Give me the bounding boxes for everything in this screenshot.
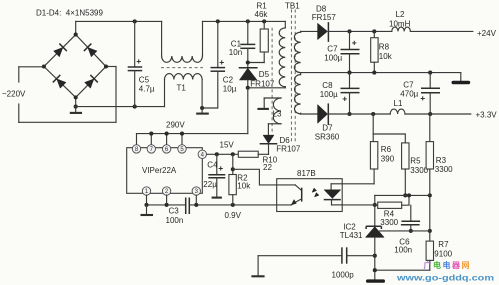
dashed shield line left of TB1 (271, 28, 273, 132)
wire: DC+ top rail (76, 19, 286, 23)
wire: opto LED cathode to TL431 (342, 204, 375, 206)
inductor L2 10mH (389, 10, 411, 31)
svg-text:C8: C8 (322, 81, 333, 90)
IC2 TL431 (340, 223, 384, 280)
resistor R10 22 (238, 151, 277, 172)
svg-text:C7: C7 (327, 44, 338, 53)
capacitor C7 100u (324, 31, 359, 72)
TB1 secondary top winding (294, 31, 317, 72)
optocoupler 817B box (277, 179, 343, 212)
wire: branch to R5 (373, 134, 405, 143)
svg-text:9100: 9100 (434, 250, 452, 259)
diode D2 (bridge top-right) (84, 44, 98, 58)
svg-text:+: + (218, 163, 223, 173)
svg-text:广: 广 (424, 260, 432, 270)
svg-text:D7: D7 (322, 124, 333, 133)
capacitor C1 10n (229, 21, 256, 67)
svg-text:FR107: FR107 (276, 144, 301, 153)
svg-text:C2: C2 (223, 75, 234, 84)
svg-text:10k: 10k (237, 182, 251, 191)
wire: TB1 primary bottom / drain node (248, 88, 285, 134)
svg-text:R8: R8 (379, 43, 390, 52)
ground bar at pin 1 (141, 205, 154, 215)
capacitor C3 100n (166, 198, 190, 226)
svg-text:470µ: 470µ (400, 90, 418, 99)
svg-text:1000p: 1000p (332, 271, 355, 280)
pin 6 (162, 145, 170, 153)
capacitor C5 4.7u (128, 21, 155, 106)
resistor R5 3300 (402, 143, 429, 198)
diode D7 SR360 (315, 103, 340, 141)
svg-text:L2: L2 (396, 10, 405, 19)
diode D6 FR107 (260, 124, 301, 155)
svg-text:15V: 15V (220, 140, 235, 149)
chassis ground bar (24V return) (453, 81, 468, 84)
svg-text:10n: 10n (229, 48, 242, 57)
wire: R2 top to optocoupler (233, 169, 277, 185)
svg-text:10mH: 10mH (389, 19, 411, 28)
AC source ~220V wires (19, 67, 116, 123)
capacitor C8 100u (320, 73, 360, 116)
resistor R8 10k (371, 31, 393, 72)
IC U1 VIPer22A (127, 148, 203, 194)
wire: source/FB bottom rail (144, 195, 276, 207)
svg-text:290V: 290V (166, 120, 185, 129)
pin 2 (162, 187, 170, 195)
svg-text:+: + (420, 93, 425, 103)
svg-text:R5: R5 (410, 157, 421, 166)
diode D1 (bridge top-left) (53, 44, 67, 58)
bridge rectifier D1-D4 diamond wires (42, 21, 108, 108)
svg-text:TB1: TB1 (285, 1, 300, 10)
svg-text:器: 器 (451, 261, 461, 270)
svg-text:C7: C7 (403, 80, 414, 89)
ground bar at Y-cap primary side (251, 256, 264, 277)
resistor R6 390 (342, 114, 394, 184)
opto emission arrows (312, 185, 322, 197)
svg-text:100n: 100n (166, 216, 184, 225)
svg-text:D1-D4: 4×1N5399: D1-D4: 4×1N5399 (36, 9, 103, 18)
svg-text:www.go-gddq.com: www.go-gddq.com (396, 274, 494, 283)
wire: 290V drain rail (137, 132, 248, 145)
svg-text:100µ: 100µ (320, 90, 338, 99)
inductor L1 (390, 99, 405, 114)
pin 1 (142, 187, 150, 195)
T1 top winding (162, 21, 203, 62)
svg-text:+3.3V: +3.3V (476, 110, 498, 119)
wire: TL431 ref row (380, 230, 430, 232)
svg-text:T1: T1 (177, 84, 187, 93)
svg-text:+: + (219, 57, 224, 67)
ground bar at C4 (212, 197, 222, 199)
svg-text:22: 22 (263, 163, 272, 172)
svg-text:~220V: ~220V (2, 90, 26, 99)
pin 7 (147, 145, 155, 153)
diode D4 (bridge bottom-right) (84, 75, 98, 89)
svg-text:C3: C3 (169, 207, 180, 216)
svg-text:C5: C5 (139, 76, 150, 85)
svg-text:10µ: 10µ (223, 84, 237, 93)
ground bar at L3 top (257, 108, 269, 110)
wire: +24V rail (328, 29, 472, 33)
TB1 core dashed lines (291, 10, 295, 143)
svg-text:C1: C1 (231, 39, 242, 48)
pin 5 (178, 145, 186, 153)
aux winding L3 (264, 98, 282, 124)
resistor R3 3300 (426, 114, 453, 241)
diode D3 (bridge bottom-left) (53, 75, 67, 89)
watermark colored characters (424, 260, 470, 270)
svg-text:FR107: FR107 (250, 79, 275, 88)
capacitor C6 100n (394, 205, 420, 254)
svg-text:网: 网 (462, 261, 470, 270)
resistor R2 10k (229, 154, 251, 205)
wire: DC- rail bridge to T1 (76, 105, 165, 109)
wire: 0V centre-tap rail (347, 71, 460, 81)
svg-text:817B: 817B (297, 169, 316, 178)
svg-text:+: + (352, 37, 357, 47)
svg-text:390: 390 (381, 154, 395, 163)
pin 8 (132, 145, 140, 153)
svg-text:+: + (342, 94, 347, 104)
capacitor C4 22u (203, 154, 225, 197)
capacitor 1000p (258, 247, 375, 279)
T1 core dashed line (161, 67, 203, 69)
resistor R1 46k (248, 1, 269, 62)
diode D8 FR157 (312, 5, 337, 42)
capacitor C2 10u (200, 21, 237, 110)
svg-text:R6: R6 (381, 145, 392, 154)
pin 3 (192, 187, 200, 195)
svg-text:100µ: 100µ (324, 54, 342, 63)
svg-text:0.9V: 0.9V (225, 211, 242, 220)
wire: VDD pin4 line (207, 152, 239, 156)
svg-text:VIPer22A: VIPer22A (142, 166, 177, 175)
svg-text:SR360: SR360 (315, 133, 340, 142)
resistor R4 3300 (375, 193, 411, 226)
opto phototransistor (277, 185, 302, 205)
svg-text:100n: 100n (394, 245, 412, 254)
svg-text:3300: 3300 (435, 165, 453, 174)
wire: secondary ground rail (373, 254, 430, 273)
svg-text:10k: 10k (379, 52, 393, 61)
svg-text:电: 电 (443, 260, 451, 270)
svg-text:L1: L1 (394, 99, 403, 108)
svg-text:46k: 46k (255, 10, 269, 19)
svg-text:L3: L3 (273, 110, 282, 119)
capacitor C7 470u (400, 73, 440, 114)
TB1 secondary bottom winding (295, 73, 350, 114)
ground bar at bridge negative (70, 107, 82, 113)
opto LED (324, 184, 343, 205)
resistor R7 9100 (426, 240, 453, 270)
ground bar at C2/T1 (196, 108, 209, 114)
chassis ground bar (secondary) (368, 279, 384, 282)
svg-text:22µ: 22µ (203, 180, 217, 189)
transformer TB1 primary winding (279, 21, 285, 87)
T1 bottom winding (165, 74, 203, 108)
svg-text:+24V: +24V (477, 29, 497, 38)
svg-text:TL431: TL431 (340, 231, 363, 240)
svg-text:电: 电 (433, 260, 441, 270)
svg-text:4.7µ: 4.7µ (139, 85, 155, 94)
pin 4 (198, 150, 206, 158)
wire: divider row to TL431 cathode (373, 195, 430, 226)
svg-text:+: + (136, 56, 141, 66)
diode D5 FR107 (239, 68, 275, 90)
wire: +3.3V rail (328, 112, 471, 116)
svg-text:FR157: FR157 (312, 13, 337, 22)
svg-text:R3: R3 (436, 156, 447, 165)
svg-text:D5: D5 (259, 70, 270, 79)
svg-text:C4: C4 (207, 161, 218, 170)
svg-text:R7: R7 (438, 240, 449, 249)
svg-text:3300: 3300 (380, 218, 398, 227)
